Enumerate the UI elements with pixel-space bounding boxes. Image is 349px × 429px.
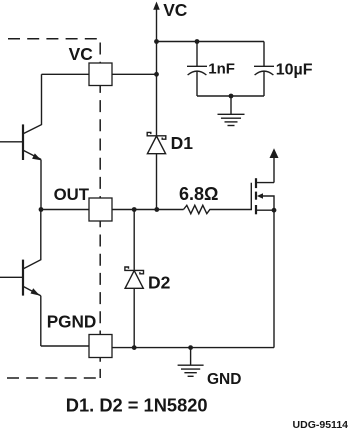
svg-text:D1. D2 = 1N5820: D1. D2 = 1N5820 — [66, 395, 208, 416]
svg-text:PGND: PGND — [47, 311, 97, 331]
svg-text:OUT: OUT — [54, 185, 90, 204]
svg-text:VC: VC — [69, 44, 94, 64]
svg-text:VC: VC — [163, 0, 188, 20]
svg-text:GND: GND — [207, 371, 241, 388]
svg-text:1nF: 1nF — [208, 60, 235, 77]
svg-text:D1: D1 — [171, 133, 194, 153]
svg-text:10µF: 10µF — [276, 61, 313, 78]
svg-text:D2: D2 — [148, 272, 171, 292]
svg-text:UDG-95114: UDG-95114 — [293, 419, 349, 429]
svg-text:6.8Ω: 6.8Ω — [179, 184, 218, 204]
